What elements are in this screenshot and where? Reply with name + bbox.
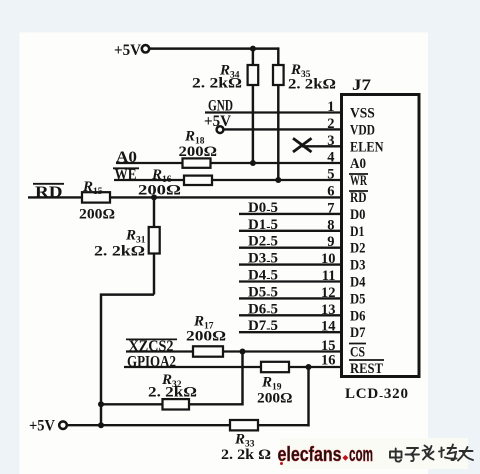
wire pin9 D2_5 [239,234,342,251]
svg-text:+5V: +5V [29,418,56,435]
wire pin2 +5V [223,128,341,130]
svg-text:14: 14 [321,319,336,335]
svg-text:LCD-320: LCD-320 [345,386,409,403]
svg-text:2. 2kΩ: 2. 2kΩ [288,77,336,93]
watermark elecfans.com logo [278,444,374,466]
svg-text:7: 7 [327,200,334,216]
svg-text:13: 13 [321,302,336,318]
svg-text:3: 3 [327,133,334,149]
wire pin12 D5_5 [239,284,342,301]
wire pin15 XZCS2 [126,350,342,352]
resistor R17 [186,314,226,357]
junction dot R32 wire / left rail [98,401,104,407]
svg-text:200Ω: 200Ω [79,207,115,223]
resistor R32 [148,372,197,410]
resistor R18 [179,129,218,168]
junction dot R35 / WE wire [275,177,281,183]
junction dot pin16 / R33 branch [306,364,312,370]
svg-text:12: 12 [321,285,336,301]
svg-text:RD: RD [350,190,367,206]
wire bottom +5V rail [67,424,309,426]
node RD (active low) [33,184,64,201]
svg-text:1: 1 [327,99,334,115]
svg-text:11: 11 [322,268,336,284]
node XZCS2 (active low) [126,338,177,355]
resistor R31 [94,197,160,294]
wire pin8 D1_5 [239,217,342,234]
svg-text:9: 9 [327,234,334,250]
svg-text:D0: D0 [350,207,366,223]
svg-text:elecfans: elecfans [278,444,342,466]
wire pin1 GND [205,111,342,113]
svg-text:5: 5 [327,167,334,183]
wire pin10 D3_5 [239,251,342,268]
pin label REST (active low) [349,360,384,377]
svg-text:2. 2kΩ: 2. 2kΩ [192,76,242,92]
svg-text:J7: J7 [352,77,371,94]
resistor R16 [138,167,212,199]
power +5V terminal (pin 2) [204,113,232,133]
svg-text:200Ω: 200Ω [179,144,218,160]
junction dot pin15 / R32 branch [240,349,246,355]
wire pin14 D7_5 [239,318,342,335]
svg-text:2: 2 [327,116,334,132]
resistor R35 [273,47,336,180]
wire jog R31 to left rail [101,295,154,427]
wire pin7 D0_5 [239,200,342,217]
node WE (active low) [113,167,139,184]
resistor R33 [221,420,271,463]
svg-text:D3-5: D3-5 [248,251,278,268]
wire branch pin15 down to R32 [101,352,243,405]
connector J7 outline [342,77,420,377]
svg-text:D1-5: D1-5 [248,217,278,234]
pin label CS (active low) [349,344,366,361]
svg-text:10: 10 [321,251,336,267]
junction dot R34 / A0 wire [250,160,256,166]
svg-text:ELEN: ELEN [350,139,384,155]
junction dot R34 / +5V rail [250,46,256,52]
power +5V terminal (bottom) [29,418,67,435]
wire pin4 A0 [116,162,342,164]
wire pin5 WE/WR [114,179,342,181]
svg-text:200Ω: 200Ω [186,329,226,345]
svg-text:D4-5: D4-5 [248,268,278,285]
svg-text:2. 2kΩ: 2. 2kΩ [94,244,145,260]
junction dot bottom rail / left rail [98,422,104,428]
svg-text:200Ω: 200Ω [138,183,181,199]
junction dot R31 / RD wire [151,194,157,200]
no-connect X on pin3 [293,138,312,152]
wire pin16 GPIOA2 [124,366,342,368]
svg-text:D6: D6 [350,308,366,324]
svg-text:D5: D5 [350,291,366,307]
svg-text:2. 2k Ω: 2. 2k Ω [221,447,271,463]
watermark Chinese text 电子发烧友 [390,445,473,462]
wire pin3 stub [302,145,342,147]
pin label RD (active low) [349,190,368,206]
resistor R15 [79,179,115,223]
svg-text:16: 16 [321,353,336,369]
pin label WR (active low) [349,173,368,189]
power +5V terminal (top left) [114,42,149,59]
svg-text:A0: A0 [350,156,366,172]
svg-text:D7: D7 [350,325,366,341]
svg-text:D3: D3 [350,258,366,274]
svg-text:8: 8 [327,217,334,233]
svg-text:D5-5: D5-5 [248,284,278,301]
wire pin11 D4_5 [239,268,342,285]
svg-text:D2-5: D2-5 [248,234,278,251]
svg-text:com: com [349,444,373,466]
resistor R34 [192,49,258,163]
svg-text:2. 2kΩ: 2. 2kΩ [148,385,197,401]
svg-text:D4: D4 [350,275,366,291]
svg-text:VDD: VDD [350,122,375,138]
svg-text:CS: CS [350,345,365,361]
svg-text:6: 6 [327,184,334,200]
wire branch pin16 down to R33 [307,367,309,427]
svg-text:REST: REST [350,361,383,377]
svg-text:D2: D2 [350,241,366,257]
svg-text:+5V: +5V [114,42,142,59]
svg-text:D1: D1 [350,224,365,240]
wire pin6 RD [28,196,342,198]
svg-text:4: 4 [327,150,334,166]
wire pin13 D6_5 [239,301,342,318]
svg-text:D6-5: D6-5 [248,301,278,318]
resistor R19 [257,362,293,407]
wire +5V top rail [150,47,279,49]
svg-text:VSS: VSS [350,106,375,122]
svg-text:D0-5: D0-5 [248,200,278,217]
svg-text:D7-5: D7-5 [248,318,278,335]
svg-text:200Ω: 200Ω [257,391,293,407]
svg-text:WR: WR [350,173,367,189]
